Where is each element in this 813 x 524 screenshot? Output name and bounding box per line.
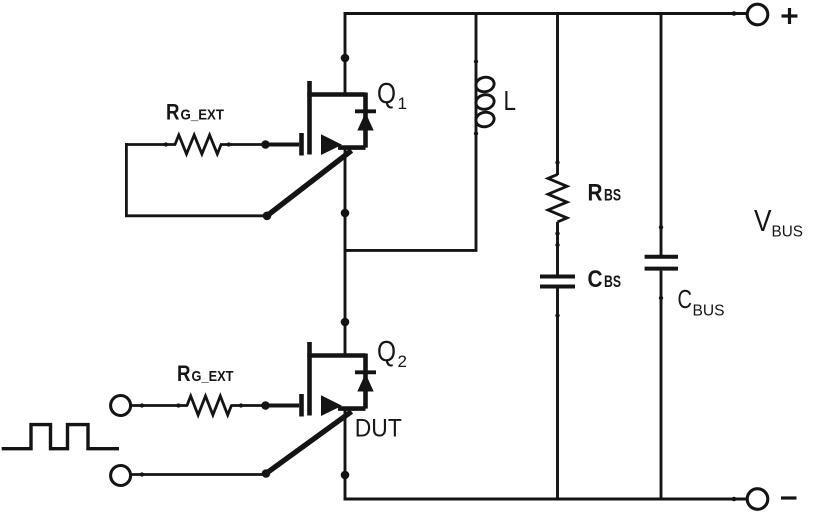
label RG_EXT Q2: [177, 361, 234, 386]
svg-text:BS: BS: [604, 273, 621, 291]
node dot RG_EXT Q2 left terminal: [176, 403, 180, 407]
svg-text:V: V: [754, 203, 772, 238]
wire Q1 gate loop top left segment: [125, 143, 176, 146]
junction dot Q1 drain: [341, 54, 350, 63]
wire Q1 gate loop left side: [125, 143, 128, 216]
svg-text:L: L: [504, 85, 517, 116]
junction dot CBS bottom: [555, 313, 559, 317]
label RBS: [588, 180, 622, 207]
svg-text:G_EXT: G_EXT: [181, 106, 225, 123]
label CBS: [588, 266, 622, 293]
wire Q1 gate lead: [264, 143, 300, 147]
label CBUS: [678, 284, 725, 320]
node dot RG_EXT Q1 left terminal: [164, 142, 168, 146]
label Q2: [377, 336, 407, 371]
svg-text:Q: Q: [377, 78, 396, 110]
terminal + (positive bus): [732, 4, 798, 25]
wire CBS bottom: [556, 289, 559, 500]
junction dot Q1 source: [341, 209, 350, 218]
body diode D1 cathode bar: [355, 109, 376, 113]
resistor RG_EXT (Q1 gate loop): [175, 135, 221, 154]
wire Q1 gate loop top right segment: [220, 143, 266, 146]
wire Q1 kelvin source diagonal: [267, 151, 352, 216]
svg-text:2: 2: [398, 352, 407, 371]
junction dot below RBS lower: [555, 243, 559, 247]
body diode D1 anode triangle: [357, 113, 373, 131]
capacitor CBUS bottom plate: [645, 267, 678, 271]
capacitor CBS top plate: [540, 275, 575, 279]
junction dot Q2 source: [341, 471, 350, 480]
svg-text:1: 1: [398, 94, 407, 113]
junction dot Q2 gate: [261, 401, 270, 410]
junction dot L bottom: [474, 131, 478, 135]
wire Q2 gate lead: [264, 404, 300, 408]
label VBUS: [754, 203, 803, 241]
wire Q1 gate loop bottom: [125, 214, 267, 217]
wire Q2 source to bottom rail: [344, 410, 347, 501]
body diode D2 branch wire: [363, 354, 368, 409]
transistor Q2 channel bar: [307, 342, 312, 416]
svg-text:BS: BS: [604, 187, 621, 205]
body diode D2 anode triangle: [357, 374, 373, 392]
capacitor CBS bottom plate: [540, 285, 575, 289]
transistor Q2 drain connection: [307, 353, 365, 358]
node dot gate input near circle: [140, 403, 144, 407]
node dot RG_EXT Q1 right terminal: [227, 142, 231, 146]
svg-text:C: C: [588, 266, 603, 293]
junction dot CBUS top: [659, 225, 663, 229]
inductor L coil: [475, 76, 496, 129]
wire RBS branch top: [556, 14, 559, 176]
svg-text:Q: Q: [377, 336, 396, 368]
transistor Q2 gate plate: [299, 394, 304, 417]
junction dot RBS top: [555, 160, 559, 164]
transistor Q1 drain connection: [307, 92, 365, 97]
resistor RG_EXT (Q2 gate): [187, 396, 231, 415]
body diode D2 cathode bar: [355, 370, 376, 374]
label RG_EXT Q1: [166, 99, 224, 124]
wire CBUS branch top: [660, 14, 663, 256]
junction dot CBUS bottom: [659, 296, 663, 300]
junction dot below RBS upper: [555, 231, 559, 235]
body diode D1 branch wire: [363, 93, 368, 148]
node dot source input near circle: [140, 472, 144, 476]
pulse generator waveform: [2, 425, 119, 449]
svg-text:C: C: [678, 284, 693, 314]
transistor Q2 source arrow: [321, 395, 342, 416]
wire L branch top: [475, 12, 478, 76]
junction dot Q2 kelvin source: [262, 469, 271, 478]
wire Q1 source to Q2 drain: [344, 149, 347, 354]
wire CBUS bottom: [660, 271, 663, 499]
svg-text:BUS: BUS: [772, 224, 804, 241]
transistor Q1 source arrow: [321, 134, 342, 155]
terminal circle source input: [111, 466, 131, 486]
wire Q1 drain (top rail to Q1): [344, 12, 347, 92]
node dot RG_EXT Q2 right terminal: [239, 403, 243, 407]
wire source input: [131, 473, 266, 476]
wire Q2 kelvin source diagonal: [266, 412, 352, 474]
terminal circle gate input: [111, 396, 131, 416]
label Q1: [377, 78, 407, 113]
svg-text:R: R: [588, 180, 603, 207]
wire top bus rail: [344, 12, 747, 15]
svg-text:BUS: BUS: [693, 303, 725, 320]
junction dot Q2 drain: [341, 318, 350, 327]
transistor Q2 source connection: [338, 406, 366, 411]
wire gate input left segment: [131, 404, 188, 407]
svg-text:DUT: DUT: [355, 415, 402, 443]
wire L branch bottom: [344, 127, 476, 250]
transistor Q1 channel bar: [307, 81, 312, 155]
junction dot L top: [474, 59, 478, 63]
junction dot Q1 gate: [261, 140, 270, 149]
wire gate input right segment: [231, 404, 267, 407]
capacitor CBUS top plate: [645, 255, 678, 259]
junction dot Q1 kelvin source: [263, 212, 272, 221]
resistor RBS: [548, 174, 567, 222]
svg-text:R: R: [166, 99, 180, 124]
transistor Q1 gate plate: [299, 133, 304, 156]
wire RBS to CBS: [556, 222, 559, 276]
wire bottom bus rail: [344, 498, 747, 501]
svg-text:G_EXT: G_EXT: [192, 368, 234, 385]
terminal - (negative bus): [732, 489, 797, 510]
svg-text:R: R: [177, 361, 191, 386]
transistor Q1 source connection: [338, 145, 366, 150]
